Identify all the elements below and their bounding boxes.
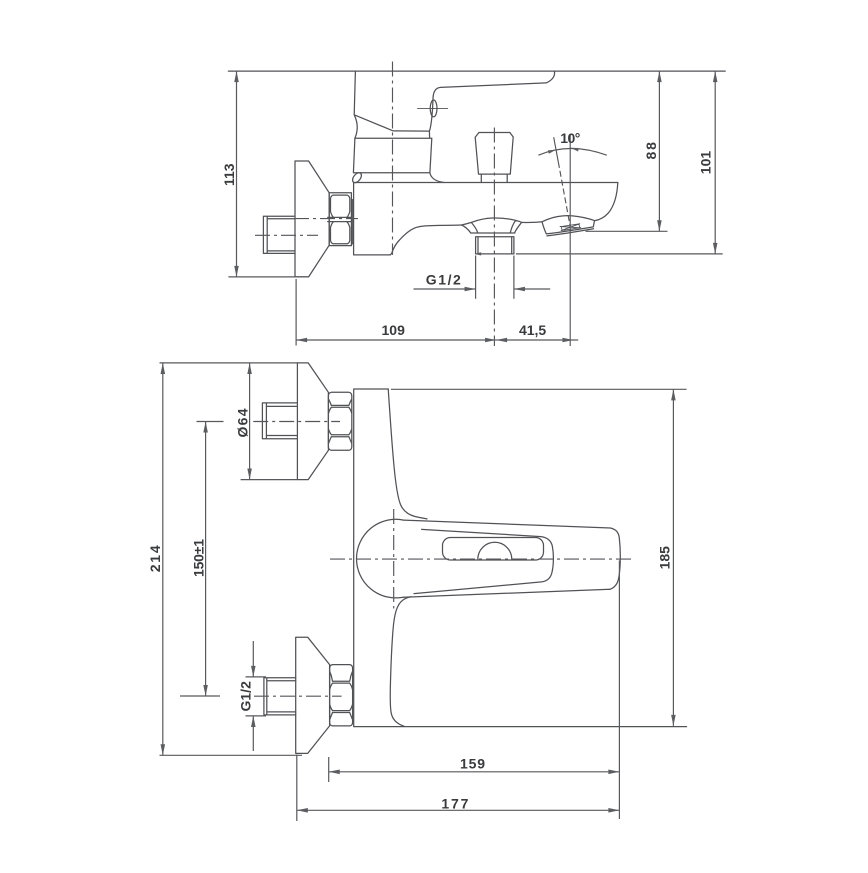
lower threaded nipple: [264, 678, 296, 715]
10 deg arc: [538, 149, 606, 156]
dim 159/177 ext right: [618, 561, 620, 820]
svg-text:Ø64: Ø64: [235, 408, 251, 437]
threaded nipple (side view): [263, 216, 295, 253]
dim 177 line: [297, 809, 620, 811]
dim 101 ext line: [516, 253, 723, 255]
svg-text:185: 185: [657, 546, 673, 570]
body (side view): [354, 183, 618, 255]
body lower waist: [390, 597, 411, 726]
body cone outer: [403, 520, 620, 597]
dim 185 ext top: [391, 388, 687, 390]
dimensions of front view: [160, 363, 687, 821]
centerlines of side view: [255, 62, 570, 347]
svg-text:101: 101: [698, 151, 714, 175]
handle circle arc: [357, 519, 404, 598]
spout axis centerline: [493, 128, 495, 347]
svg-text:113: 113: [221, 163, 237, 186]
dim O64 ext bottom: [241, 479, 298, 481]
dim G1/2 ext lines: [476, 256, 514, 299]
shower outlet boss: [522, 216, 595, 236]
bonnet foot: [351, 171, 363, 184]
dim O64 line: [249, 363, 251, 480]
svg-text:109: 109: [382, 322, 406, 338]
lever semicircle detail: [478, 542, 512, 559]
10 deg arrows: [548, 148, 579, 154]
lower wall flange: [296, 637, 330, 753]
svg-text:88: 88: [643, 142, 659, 160]
svg-text:177: 177: [441, 795, 468, 811]
datum arrow at aerator corner: [474, 252, 481, 255]
svg-text:159: 159: [460, 756, 485, 772]
pivot ellipse: [430, 100, 437, 117]
circle vertical centerline: [393, 509, 395, 609]
lever cone inner: [414, 529, 553, 593]
svg-text:41,5: 41,5: [519, 322, 546, 338]
upper threaded nipple: [262, 403, 297, 439]
dim 41,5 line: [496, 339, 573, 341]
body right curve to outlet: [595, 183, 618, 221]
dim 109 ext line: [295, 279, 297, 346]
upper connection centerline: [253, 421, 340, 423]
top reference line: [228, 70, 725, 72]
handle skirt: [354, 71, 429, 138]
union washer: [351, 200, 353, 245]
aerator nut G1/2: [471, 233, 515, 254]
body upper waist: [388, 389, 427, 519]
dim 177 ext left: [296, 755, 298, 822]
svg-text:214: 214: [147, 545, 163, 572]
dim 214 line: [162, 363, 164, 755]
centerlines of front view: [253, 422, 634, 697]
dim G1/2 lower ext lines: [246, 677, 267, 716]
body horizontal centerline: [330, 558, 634, 560]
cartridge bonnet: [353, 131, 444, 182]
diverter knob: [475, 133, 513, 183]
dim 150 line: [205, 422, 207, 697]
dim 113 ext line: [228, 276, 308, 278]
svg-text:150±1: 150±1: [190, 539, 206, 577]
dim 185 line: [672, 389, 674, 726]
spout collar: [462, 218, 522, 233]
svg-text:G1/2: G1/2: [426, 271, 461, 287]
outlet tilted axis 10deg: [554, 137, 559, 162]
lower hex nut: [330, 665, 353, 726]
pivot axis line: [418, 107, 448, 109]
outlet thread box: [560, 224, 581, 231]
wall flange (side view): [295, 161, 329, 277]
body front outline: [354, 389, 687, 727]
inlet axis centerline: [294, 218, 358, 220]
lower connection centerline: [254, 695, 342, 697]
dimensions of side view: [228, 71, 722, 345]
dim G1/2 arrow lines: [414, 288, 476, 290]
outlet axis line: [569, 134, 571, 346]
dim 113 line: [236, 71, 238, 277]
handle lever: [429, 71, 554, 131]
dim 88 line: [658, 71, 660, 231]
spout underside: [390, 225, 461, 255]
dim 214 ext bottom: [160, 754, 303, 756]
dim 159 line: [329, 771, 620, 773]
dim 101 line: [714, 71, 716, 254]
dim 214 ext top: [160, 362, 298, 364]
handle axis centerline: [392, 62, 394, 255]
upper hex nut: [328, 392, 351, 450]
dim 88 ext line: [586, 230, 668, 232]
dim 150 ticks: [180, 422, 224, 697]
hex nut (side view): [328, 193, 352, 246]
nipple axis centerline: [255, 234, 318, 236]
upper wall flange: [297, 363, 328, 480]
dim G1/2 lower arrow lines: [252, 641, 254, 677]
svg-text:10°: 10°: [560, 130, 580, 146]
dim 159 ext left: [328, 757, 330, 782]
lever recess rounded rect: [443, 538, 544, 561]
svg-text:G1/2: G1/2: [237, 681, 253, 712]
dim 109 line: [296, 339, 496, 341]
